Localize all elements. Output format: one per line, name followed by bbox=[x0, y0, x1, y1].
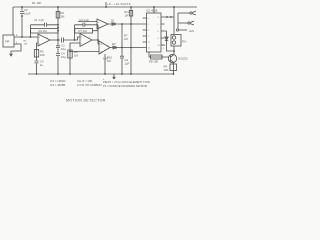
wire comp1 output bbox=[108, 23, 147, 25]
svg-text:D2: D2 bbox=[112, 42, 116, 46]
svg-text:11: 11 bbox=[148, 42, 150, 44]
svg-text:12: 12 bbox=[148, 48, 150, 50]
svg-text:R1 10K: R1 10K bbox=[32, 1, 41, 5]
wire fb right branch stage2 bbox=[93, 25, 99, 40]
resistor R8 bbox=[151, 55, 163, 59]
svg-text:R7 1M: R7 1M bbox=[79, 29, 88, 33]
svg-text:R4 1M: R4 1M bbox=[39, 29, 48, 33]
capacitor C6 fb stage2 bbox=[75, 23, 99, 27]
capacitor C2 bbox=[20, 12, 24, 14]
connector J2 bbox=[188, 22, 190, 24]
wire contact column bbox=[177, 13, 179, 29]
svg-text:1M: 1M bbox=[74, 54, 79, 58]
svg-text:1µF: 1µF bbox=[125, 62, 130, 66]
svg-text:10K: 10K bbox=[40, 53, 45, 57]
wire relay column bbox=[173, 7, 175, 35]
svg-text:6: 6 bbox=[148, 30, 149, 32]
svg-text:10K: 10K bbox=[24, 43, 28, 45]
bottom notes bbox=[50, 78, 150, 88]
PIR sensor P1 bbox=[3, 35, 14, 47]
ground arrow left bbox=[10, 54, 13, 56]
capacitor C4b bbox=[120, 56, 124, 58]
resistor R5 bbox=[34, 50, 38, 58]
svg-text:D1: D1 bbox=[111, 19, 115, 23]
wire coupling to stage2 bbox=[64, 37, 81, 40]
svg-text:1: 1 bbox=[158, 24, 159, 26]
svg-text:PIR: PIR bbox=[5, 40, 9, 44]
svg-text:10µ: 10µ bbox=[61, 55, 66, 59]
capacitor C4a bbox=[56, 54, 60, 56]
svg-text:PIEZO = 27mm DISC ELEMENT TYPE: PIEZO = 27mm DISC ELEMENT TYPE bbox=[103, 80, 150, 84]
switch armature bbox=[176, 29, 178, 31]
IC2 pin numbers bbox=[148, 17, 160, 50]
op-amp IC1c bbox=[97, 19, 108, 29]
transistor Q1 bbox=[168, 54, 176, 62]
svg-text:1µ: 1µ bbox=[40, 63, 44, 67]
svg-text:1M: 1M bbox=[61, 15, 66, 19]
wire PIR signal out bbox=[14, 36, 38, 38]
svg-text:7: 7 bbox=[148, 36, 149, 38]
resistor R9 bbox=[170, 64, 177, 71]
svg-text:10: 10 bbox=[158, 45, 160, 47]
relay RY1 bbox=[171, 35, 181, 47]
capacitor C coupling bbox=[62, 38, 64, 43]
wire opamp2 plus leg bbox=[70, 43, 80, 74]
capacitor C2a bbox=[56, 46, 60, 48]
wire opamp1 output bbox=[50, 39, 60, 41]
wire bottom ground rail bbox=[28, 73, 174, 75]
wire opamp1 plus leg bbox=[37, 43, 39, 74]
svg-text:RY1: RY1 bbox=[182, 41, 187, 44]
svg-text:+12V: +12V bbox=[189, 30, 195, 33]
svg-text:3: 3 bbox=[158, 17, 159, 19]
wire contact out 2 bbox=[178, 22, 188, 24]
wire top power rail bbox=[13, 6, 197, 8]
svg-text:5: 5 bbox=[148, 24, 149, 26]
diode D3 branch bbox=[167, 31, 175, 51]
junction dots bbox=[21, 6, 175, 75]
svg-text:4: 4 bbox=[148, 18, 149, 20]
wire fb left leg stage1 bbox=[30, 25, 32, 37]
op-amp IC1d bbox=[99, 41, 110, 54]
resistor R6 bias bbox=[68, 50, 72, 58]
svg-text:1/4 W, 5% CARBON: 1/4 W, 5% CARBON bbox=[77, 83, 102, 87]
wire IC2 supply drop bbox=[153, 7, 155, 13]
resistor R4 feedback stage1 bbox=[31, 29, 59, 34]
svg-text:10K: 10K bbox=[164, 68, 169, 72]
svg-text:9: 9 bbox=[158, 38, 159, 40]
svg-text:R8 10K: R8 10K bbox=[149, 60, 158, 64]
labels bbox=[5, 1, 195, 72]
svg-text:IC1 = LM324: IC1 = LM324 bbox=[50, 79, 66, 83]
svg-text:2N2222: 2N2222 bbox=[178, 57, 188, 61]
resistor R2 column bbox=[57, 7, 59, 74]
wire IC2 bottom to base bbox=[149, 52, 168, 57]
wire opamp2 output bbox=[92, 39, 98, 41]
wire comparator feed bbox=[97, 27, 99, 45]
svg-text:IC2 = 4528B: IC2 = 4528B bbox=[50, 83, 65, 87]
wire or junction bbox=[121, 24, 123, 74]
capacitor C fb stage1 bbox=[31, 23, 59, 27]
capacitor C3b bbox=[35, 61, 39, 63]
pin numbers opamps bbox=[39, 22, 110, 54]
svg-text:10µ: 10µ bbox=[61, 47, 66, 51]
svg-text:IC2 4528: IC2 4528 bbox=[146, 9, 158, 13]
svg-text:MOTION DETECTOR: MOTION DETECTOR bbox=[66, 99, 106, 103]
svg-text:2: 2 bbox=[158, 31, 159, 33]
svg-text:ALL R = 10K,: ALL R = 10K, bbox=[77, 79, 93, 83]
IC2 box bbox=[147, 13, 162, 52]
svg-text:C1 1 µF: C1 1 µF bbox=[34, 18, 44, 22]
wire tri3 top input bbox=[78, 21, 97, 23]
wire mid supply column x130 bbox=[130, 7, 132, 74]
wire PIR ground bbox=[11, 44, 21, 56]
resistor R11 bbox=[129, 11, 132, 17]
op-amp IC1b bbox=[80, 34, 92, 47]
svg-text:1M: 1M bbox=[125, 14, 128, 17]
svg-text:10µF: 10µF bbox=[24, 12, 31, 16]
wire timing column bbox=[104, 54, 106, 74]
svg-text:1M: 1M bbox=[107, 59, 112, 63]
wire IC2 left pins bbox=[143, 18, 147, 42]
svg-text:C3 1 µF: C3 1 µF bbox=[79, 18, 89, 22]
resistor R7 fb stage2 bbox=[75, 28, 93, 33]
svg-text:+9 - +12 VOLTS: +9 - +12 VOLTS bbox=[107, 2, 131, 6]
wire tri4 bottom input bbox=[70, 51, 99, 53]
wire collector column bbox=[173, 46, 175, 54]
node supply label arrow bbox=[105, 2, 107, 7]
op-amp IC1a bbox=[38, 34, 50, 46]
diode D1 bbox=[112, 23, 115, 26]
wire emitter bbox=[173, 62, 175, 74]
connector J1 bbox=[190, 12, 192, 14]
wire IC2 right pins bbox=[161, 17, 174, 45]
wire comp2 output bbox=[110, 47, 147, 49]
diode D2 bbox=[113, 46, 116, 49]
diode D3 bbox=[165, 37, 168, 41]
svg-text:P1 = PASSIVE INFRARED SENSOR: P1 = PASSIVE INFRARED SENSOR bbox=[103, 84, 147, 88]
wire C2 column bbox=[21, 7, 23, 37]
ground arrow bottom bbox=[113, 74, 116, 79]
wire fb left leg stage2 bbox=[74, 25, 76, 40]
wire contact out 1 bbox=[178, 12, 190, 14]
svg-text:1M: 1M bbox=[124, 37, 129, 41]
wire left supply drop bbox=[12, 7, 14, 35]
